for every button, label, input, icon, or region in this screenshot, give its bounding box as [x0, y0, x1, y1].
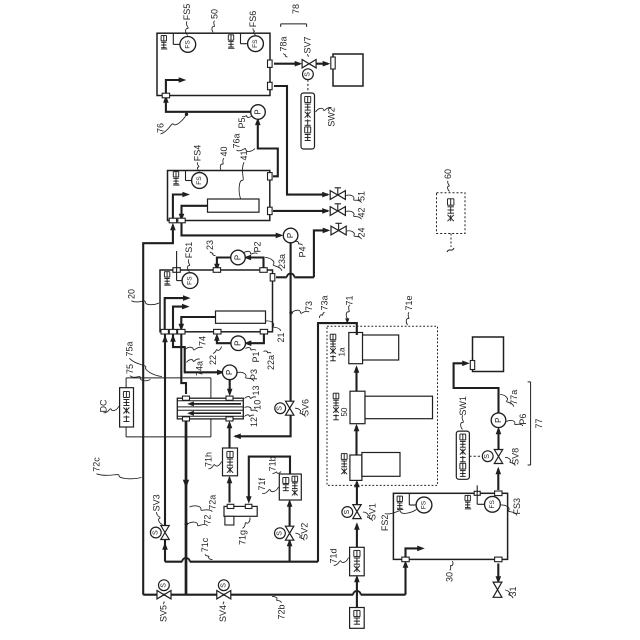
svg-text:71h: 71h — [203, 452, 213, 467]
svg-text:P: P — [225, 370, 234, 375]
svg-text:SV2: SV2 — [299, 523, 309, 540]
svg-text:74a: 74a — [195, 361, 205, 376]
svg-text:FS3: FS3 — [512, 498, 522, 515]
svg-text:24: 24 — [357, 227, 367, 237]
svg-text:S: S — [304, 72, 311, 77]
svg-text:30: 30 — [445, 572, 455, 582]
svg-text:P6: P6 — [518, 414, 528, 425]
svg-text:FS: FS — [421, 500, 428, 509]
svg-text:S: S — [220, 583, 227, 588]
svg-text:71g: 71g — [238, 530, 248, 545]
svg-text:SV7: SV7 — [302, 36, 312, 53]
svg-text:P: P — [234, 255, 243, 260]
svg-text:SW1: SW1 — [458, 396, 468, 416]
svg-text:DC: DC — [99, 399, 109, 412]
svg-text:FS6: FS6 — [248, 11, 258, 28]
svg-text:P: P — [234, 341, 243, 346]
svg-text:72c: 72c — [92, 457, 102, 472]
svg-text:FS5: FS5 — [182, 4, 192, 21]
svg-text:FS: FS — [252, 39, 259, 48]
svg-text:73: 73 — [304, 301, 314, 311]
svg-text:S: S — [160, 583, 167, 588]
svg-text:SV8: SV8 — [510, 448, 520, 465]
svg-text:71b: 71b — [268, 456, 278, 471]
svg-text:42: 42 — [357, 207, 367, 217]
svg-text:71c: 71c — [200, 537, 210, 552]
svg-text:40: 40 — [219, 146, 229, 156]
svg-text:78: 78 — [291, 4, 301, 14]
svg-text:73a: 73a — [320, 295, 330, 310]
svg-text:P1: P1 — [251, 351, 261, 362]
svg-text:22: 22 — [208, 355, 218, 365]
svg-text:S: S — [484, 454, 491, 459]
svg-text:P: P — [286, 233, 295, 238]
svg-text:71f: 71f — [257, 477, 267, 490]
svg-text:SV3: SV3 — [152, 494, 162, 511]
svg-text:75a: 75a — [124, 341, 134, 356]
svg-text:SV5: SV5 — [159, 605, 169, 622]
svg-text:10: 10 — [253, 400, 263, 410]
svg-text:78a: 78a — [278, 36, 288, 51]
svg-text:72b: 72b — [277, 604, 287, 619]
svg-text:23: 23 — [205, 240, 215, 250]
svg-text:P: P — [494, 418, 503, 423]
svg-text:50: 50 — [210, 9, 220, 19]
svg-text:1a: 1a — [338, 347, 347, 356]
svg-text:S: S — [277, 406, 284, 411]
svg-text:FS: FS — [196, 176, 203, 185]
svg-text:76: 76 — [156, 123, 166, 133]
svg-text:13: 13 — [251, 385, 261, 395]
svg-text:50: 50 — [340, 407, 349, 416]
svg-text:22a: 22a — [266, 355, 276, 370]
svg-text:FS4: FS4 — [193, 145, 203, 162]
svg-text:76a: 76a — [232, 133, 242, 148]
svg-text:72a: 72a — [207, 495, 217, 510]
svg-text:74: 74 — [198, 336, 208, 346]
svg-text:20: 20 — [126, 289, 136, 299]
svg-text:SW2: SW2 — [327, 107, 337, 127]
svg-text:23a: 23a — [277, 254, 287, 269]
svg-text:60: 60 — [443, 169, 453, 179]
svg-text:71d: 71d — [329, 548, 339, 563]
svg-text:P: P — [254, 109, 263, 114]
svg-text:77: 77 — [534, 418, 544, 428]
svg-text:S: S — [152, 530, 159, 535]
svg-text:51: 51 — [357, 191, 367, 201]
svg-text:21: 21 — [276, 332, 286, 342]
svg-text:SV4: SV4 — [218, 605, 228, 622]
svg-text:41: 41 — [239, 150, 249, 160]
svg-text:P4: P4 — [298, 246, 308, 257]
svg-text:S: S — [344, 510, 351, 515]
svg-text:71: 71 — [345, 295, 355, 305]
svg-text:P2: P2 — [253, 241, 263, 252]
svg-text:71e: 71e — [404, 295, 414, 310]
svg-text:FS2: FS2 — [380, 515, 390, 532]
svg-text:12: 12 — [249, 417, 259, 427]
svg-text:P5: P5 — [237, 117, 247, 128]
svg-text:FS1: FS1 — [184, 242, 194, 259]
svg-text:FS: FS — [489, 499, 496, 508]
svg-text:FS: FS — [184, 40, 191, 49]
svg-text:S: S — [276, 531, 283, 536]
svg-text:75: 75 — [125, 364, 135, 374]
svg-text:72: 72 — [203, 515, 213, 525]
svg-text:FS: FS — [187, 276, 194, 285]
